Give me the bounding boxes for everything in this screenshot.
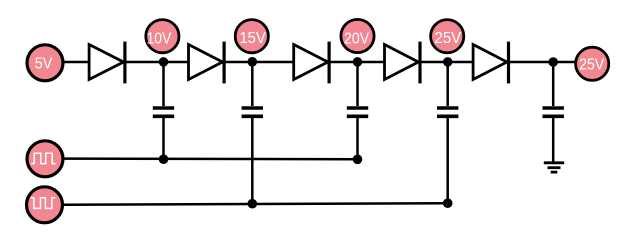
wire C3 down to clock1	[356, 118, 359, 159]
source 5V input terminal	[27, 45, 63, 81]
diode D1	[89, 42, 125, 84]
source clock phase 2	[27, 187, 63, 223]
capacitor C5	[543, 108, 564, 116]
diode D2	[189, 42, 225, 84]
svg-text:25V: 25V	[435, 30, 462, 47]
wire node4 down to C4	[446, 62, 449, 106]
diode D5	[473, 42, 508, 84]
junction main rail output node	[548, 57, 558, 67]
wire C2 down to clock2	[251, 118, 254, 204]
wire node3 down to C3	[356, 62, 359, 106]
wire clock phase 1 line	[64, 157, 358, 160]
svg-text:10V: 10V	[147, 30, 172, 47]
svg-text:5V: 5V	[35, 55, 53, 72]
diode D3	[294, 42, 329, 84]
wire node1 down to C1	[162, 62, 165, 106]
wire node2 down to C2	[251, 62, 254, 106]
diode D4	[385, 42, 421, 84]
capacitor C1	[153, 108, 174, 116]
wire C1 down to clock1	[162, 118, 165, 159]
capacitor C3	[347, 108, 368, 116]
junction clock1 C1	[159, 154, 169, 164]
wire node5 down to C5	[552, 62, 555, 106]
junction clock1 C3	[353, 155, 363, 165]
junction main rail node 10V	[159, 57, 169, 67]
node 10V label	[146, 20, 179, 53]
ground	[544, 163, 564, 172]
junction clock2 C2	[248, 199, 258, 209]
wire C4 down to clock2	[446, 118, 449, 203]
node 15V label	[235, 20, 268, 53]
node 25V label	[431, 20, 464, 53]
source clock phase 1	[27, 141, 63, 177]
wire main horizontal rail	[45, 61, 592, 64]
svg-text:25V: 25V	[579, 56, 604, 73]
node 20V label	[341, 19, 374, 52]
junction clock2 C4	[443, 198, 453, 208]
junction main rail node 20V	[353, 57, 363, 67]
svg-text:20V: 20V	[344, 30, 369, 47]
junction main rail node 15V	[248, 57, 258, 67]
wire clock phase 2 line	[64, 203, 448, 205]
svg-text:15V: 15V	[239, 30, 266, 47]
capacitor C4	[437, 108, 458, 116]
wire C5 down to ground	[552, 118, 555, 162]
capacitor C2	[242, 108, 263, 116]
node 25V output terminal	[576, 47, 609, 80]
junction main rail node 25V	[443, 57, 453, 67]
